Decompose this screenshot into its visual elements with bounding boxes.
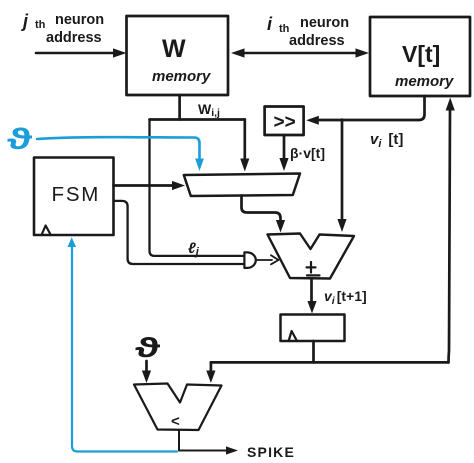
wire: Wi,j horizontal bus <box>150 118 245 121</box>
wire: theta into comparator <box>145 361 148 371</box>
comparator <box>134 384 222 431</box>
wire: FSM enable to AND gate <box>114 201 245 264</box>
shifter >> <box>265 107 304 136</box>
svg-text:V[t]: V[t] <box>402 41 440 67</box>
label: i-th neuron address <box>267 14 349 49</box>
memory W <box>127 16 229 95</box>
wire: FSM select into mux <box>114 184 179 187</box>
svg-text:address: address <box>46 30 102 46</box>
wire: lj branch down to AND gate <box>150 120 245 256</box>
svg-text:neuron: neuron <box>55 12 104 28</box>
wire: down into comparator right input <box>210 362 213 372</box>
svg-text:W: W <box>162 35 186 63</box>
svg-text:β·v[t]: β·v[t] <box>290 145 325 161</box>
svg-text:FSM: FSM <box>52 183 101 206</box>
svg-text:ϑ: ϑ <box>135 332 161 363</box>
wire: vi[t] branch down to ALU <box>341 120 344 220</box>
svg-text:neuron: neuron <box>300 15 349 31</box>
svg-text:i: i <box>267 14 273 34</box>
wire: shifter output beta*v[t] into mux <box>283 135 286 160</box>
wire (blue): theta into mux <box>37 137 200 159</box>
wire: AND output into ALU <box>257 259 272 261</box>
svg-text:ℓj: ℓj <box>188 240 200 258</box>
svg-text:Wi,j: Wi,j <box>198 101 220 119</box>
memory V[t] <box>370 17 470 96</box>
label plus-minus <box>307 262 320 275</box>
svg-text:th: th <box>35 19 46 31</box>
svg-text:ϑ: ϑ <box>7 123 33 156</box>
clock wedge FSM <box>42 226 51 236</box>
wire: comparator output to SPIKE <box>179 430 231 451</box>
svg-text:memory: memory <box>152 68 211 85</box>
wire: j address into W memory <box>36 52 121 55</box>
wire: register output down and feedback bus <box>312 341 315 362</box>
AND gate <box>244 252 255 268</box>
FSM <box>34 158 114 236</box>
wire: mux output into ALU <box>242 196 281 222</box>
clock wedge register <box>289 331 297 341</box>
svg-text:vi[t+1]: vi[t+1] <box>324 288 367 307</box>
wire: feedback up into V[t] memory <box>449 108 451 362</box>
wire (blue): spike feedback to FSM clock <box>72 246 177 452</box>
label: j-th neuron address <box>21 11 104 46</box>
svg-text:>>: >> <box>274 112 296 133</box>
wire: bidirectional address bus between W and V[t] <box>243 52 357 55</box>
register <box>281 315 345 342</box>
ALU adder/subtractor <box>268 234 355 279</box>
mux <box>184 174 300 197</box>
wire: Wi,j down into mux <box>243 120 246 161</box>
wire: W memory data out <box>178 95 181 120</box>
wire: ALU output vi[t+1] into register <box>310 279 313 303</box>
svg-text:vi[t]: vi[t] <box>370 131 403 150</box>
svg-text:SPIKE: SPIKE <box>247 444 295 460</box>
svg-text:j: j <box>21 11 29 31</box>
svg-text:address: address <box>289 33 345 49</box>
wire: V[t] data out <box>311 96 425 120</box>
svg-text:memory: memory <box>395 73 454 90</box>
svg-text:<: < <box>171 413 180 430</box>
